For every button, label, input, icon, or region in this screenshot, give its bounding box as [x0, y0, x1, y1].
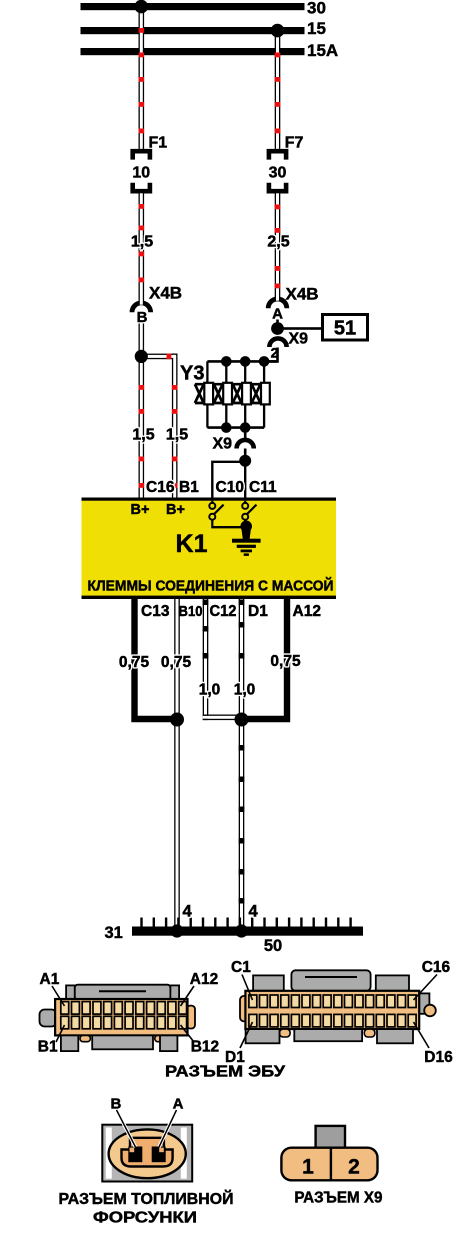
pointer line C16 [414, 975, 438, 1001]
svg-text:4: 4 [183, 903, 193, 921]
connector X9 body [281, 1148, 377, 1181]
junction Y3 bottom rail 3 [240, 422, 251, 433]
svg-text:K1: K1 [176, 530, 208, 558]
svg-text:4: 4 [249, 903, 259, 921]
svg-text:РАЗЪЕМ ЭБУ: РАЗЪЕМ ЭБУ [165, 1064, 285, 1081]
svg-text:F1: F1 [149, 135, 168, 152]
bus bar 15 [81, 27, 305, 34]
wire X9 pin2 down to Y3 rail [264, 348, 278, 362]
ground bus ticks [140, 918, 351, 928]
junction D1/C12/A12 [235, 713, 249, 727]
connector X9 divider [330, 1148, 332, 1181]
bus bar 15A [81, 48, 305, 55]
svg-text:КЛЕММЫ СОЕДИНЕНИЯ С МАССОЙ: КЛЕММЫ СОЕДИНЕНИЯ С МАССОЙ [88, 577, 334, 595]
svg-text:Y3: Y3 [180, 363, 204, 385]
terminal label C16 [146, 479, 175, 496]
dashes D1 [239, 600, 245, 904]
svg-text:B12: B12 [191, 1039, 219, 1056]
svg-text:B: B [110, 1096, 121, 1113]
pointer line A1 [52, 986, 65, 1006]
svg-text:50: 50 [264, 937, 282, 955]
wire node to box 51 [278, 327, 323, 330]
terminal label C13 [141, 603, 170, 620]
wire node to terminal C10 [212, 462, 245, 498]
injector 4 valve (Y3) [252, 384, 261, 403]
svg-text:C1: C1 [231, 959, 251, 976]
junction on bus 15 [271, 24, 285, 38]
svg-text:31: 31 [105, 924, 123, 942]
terminal label A12 [293, 603, 321, 620]
svg-text:2,5: 2,5 [267, 234, 289, 251]
connector X4B arc (pin B) [132, 303, 151, 312]
junction Y3 top rail 4 [259, 356, 270, 367]
dashes C12 [203, 600, 209, 659]
label 4 right [249, 903, 259, 921]
svg-text:0,75: 0,75 [161, 654, 192, 671]
wire gauge 2,5 [267, 234, 289, 251]
svg-text:C13: C13 [141, 603, 170, 620]
injector 2 coil (Y3) [223, 383, 232, 405]
svg-text:15A: 15A [307, 41, 338, 60]
wire gauge 1,5 [131, 234, 153, 251]
svg-text:30: 30 [307, 0, 326, 18]
svg-text:C11: C11 [249, 479, 277, 496]
pointer line pin A [159, 1110, 177, 1147]
junction bus D1 [235, 924, 248, 937]
terminal label C10 [216, 479, 244, 496]
Y3 branch wire 2 [225, 361, 227, 427]
wire C12 elbow to node [203, 715, 241, 721]
Y3 branch wire 4 [263, 361, 265, 427]
svg-text:X9: X9 [213, 436, 233, 453]
svg-text:B1: B1 [179, 479, 199, 496]
pointer line B1 [56, 1025, 65, 1042]
wire junction to B1 branch (white/red, elbow) [141, 354, 177, 498]
box 51 [323, 315, 368, 341]
svg-text:C12: C12 [210, 603, 237, 620]
svg-text:2: 2 [348, 1156, 360, 1179]
svg-text:D16: D16 [424, 1049, 453, 1066]
wire X9 return to node [244, 449, 247, 461]
svg-text:D1: D1 [248, 603, 268, 620]
wire Y3 rail to X9 return [244, 428, 247, 440]
svg-text:B+: B+ [131, 502, 150, 518]
junction bus B10 [170, 924, 183, 937]
pointer line pin B [117, 1110, 136, 1147]
wire gauge 0,75 B10 [161, 654, 192, 671]
pointer line D1 [240, 1022, 253, 1048]
junction Y3 top rail 3 [240, 356, 251, 367]
svg-text:10: 10 [132, 165, 150, 182]
connector X9 tab [316, 1126, 345, 1149]
svg-text:A12: A12 [190, 971, 218, 988]
node C10/C11 split [239, 455, 251, 467]
fuse F7 bracket bottom [269, 183, 286, 191]
label 4 left [183, 903, 193, 921]
svg-text:РАЗЪЕМ ТОПЛИВНОЙ: РАЗЪЕМ ТОПЛИВНОЙ [59, 1190, 234, 1208]
svg-text:1,0: 1,0 [199, 682, 221, 699]
terminal label B10 [179, 603, 203, 620]
wire bus30 to F1 (white/red) [139, 3, 145, 149]
wire A12 ground (thick) [245, 599, 287, 719]
wire bus15 to F7 (white/red) [275, 27, 281, 149]
svg-text:C10: C10 [216, 479, 244, 496]
svg-text:51: 51 [334, 318, 356, 340]
wire gauge 1,0 D1 [234, 682, 256, 699]
terminal label C11 [249, 479, 277, 496]
wire B10 (white) [174, 599, 180, 932]
svg-text:1,5: 1,5 [131, 234, 153, 251]
wire gauge 0,75 A12 [270, 653, 301, 670]
injector 2 valve (Y3) [214, 384, 223, 403]
block K1 (ground terminals) [82, 498, 337, 600]
injector 3 valve (Y3) [233, 384, 242, 403]
node to relay 51 [271, 322, 284, 335]
injector 4 coil (Y3) [261, 383, 270, 405]
svg-text:РАЗЪЕМ X9: РАЗЪЕМ X9 [294, 1190, 382, 1207]
ECU connector A/B body group [40, 985, 196, 1051]
wire notch through arc B [140, 300, 143, 305]
ECU connector C/D body group [240, 970, 436, 1043]
wire switch C10 to ground bolt [212, 526, 243, 528]
pointer line A12 [181, 986, 195, 1006]
junction node left [135, 350, 148, 363]
Y3 branch wire 1 [206, 361, 208, 427]
connector X4B arc (pin A) [268, 299, 287, 308]
wire gauge 1,5 right [166, 427, 188, 444]
injector 1 coil (Y3) [204, 383, 213, 405]
fuse F7 bracket top [269, 151, 286, 159]
wire gauge 1,0 C12 [199, 682, 221, 699]
wire C13 ground (thick) [135, 599, 174, 719]
wire notch through arc A [276, 296, 279, 301]
svg-text:0,75: 0,75 [119, 654, 150, 671]
svg-text:B: B [137, 309, 148, 326]
wire stub A to node [276, 320, 279, 329]
svg-text:1: 1 [302, 1156, 314, 1179]
ground bolt [240, 521, 252, 540]
injector 1 valve (Y3) [195, 384, 204, 403]
Y3 bottom rail [207, 426, 264, 429]
wire X4B-B down to junction and terminal C16 (white/red) [139, 324, 145, 498]
pointer line B12 [181, 1025, 195, 1042]
injector connector outer shell [102, 1125, 192, 1182]
svg-text:C16: C16 [422, 959, 451, 976]
wire F1 to X4B pin B (white/red) [139, 193, 145, 303]
wire D1 (white/black) [239, 599, 245, 932]
pointer line C1 [242, 975, 253, 1001]
svg-text:B1: B1 [38, 1039, 58, 1056]
svg-text:A: A [173, 1096, 184, 1113]
ground bus 31 [132, 927, 363, 936]
wire gauge 1,5 left [132, 427, 154, 444]
pointer line D16 [414, 1022, 430, 1048]
connector X9 arc (return) [237, 440, 254, 449]
junction Y3 top rail 2 [221, 356, 232, 367]
injector 3 coil (Y3) [242, 383, 251, 405]
fuse F1 bracket top [133, 151, 150, 159]
svg-text:30: 30 [269, 165, 287, 182]
svg-text:A1: A1 [40, 971, 60, 988]
svg-text:F7: F7 [285, 135, 304, 152]
Y3 top rail [207, 360, 277, 363]
ground symbol [232, 539, 261, 556]
switch contact C11 [242, 501, 256, 523]
svg-text:ФОРСУНКИ: ФОРСУНКИ [93, 1210, 197, 1227]
terminal label D1 [248, 603, 268, 620]
svg-text:1,5: 1,5 [166, 427, 188, 444]
svg-text:X9: X9 [289, 331, 309, 348]
switch contact C10 [209, 501, 223, 529]
wire node to terminal C11 [244, 461, 246, 498]
svg-text:A12: A12 [293, 603, 321, 620]
terminal label C12 [210, 603, 237, 620]
svg-text:C16: C16 [146, 479, 175, 496]
terminal label B1 [179, 479, 199, 496]
svg-text:B10: B10 [179, 603, 203, 620]
junction Y3 bottom rail 2 [221, 422, 232, 433]
svg-text:X4B: X4B [149, 284, 182, 303]
svg-text:0,75: 0,75 [270, 653, 301, 670]
svg-text:X4B: X4B [286, 285, 319, 304]
bus bar 30 [81, 3, 305, 10]
wire gauge 0,75 C13 [119, 654, 150, 671]
fuse F1 bracket bottom [133, 183, 150, 191]
junction on bus 30 [135, 0, 149, 13]
junction B10/C13 [170, 713, 184, 727]
Y3 branch wire 3 [244, 361, 246, 427]
wire C12 (white/black) [203, 599, 209, 715]
svg-text:1,5: 1,5 [132, 427, 154, 444]
connector X9 arc (pin 2) [269, 338, 286, 347]
svg-text:15: 15 [307, 19, 326, 38]
wire F7 to X4B pin A (white/red) [275, 193, 281, 299]
svg-text:1,0: 1,0 [234, 682, 256, 699]
svg-text:B+: B+ [166, 502, 185, 518]
